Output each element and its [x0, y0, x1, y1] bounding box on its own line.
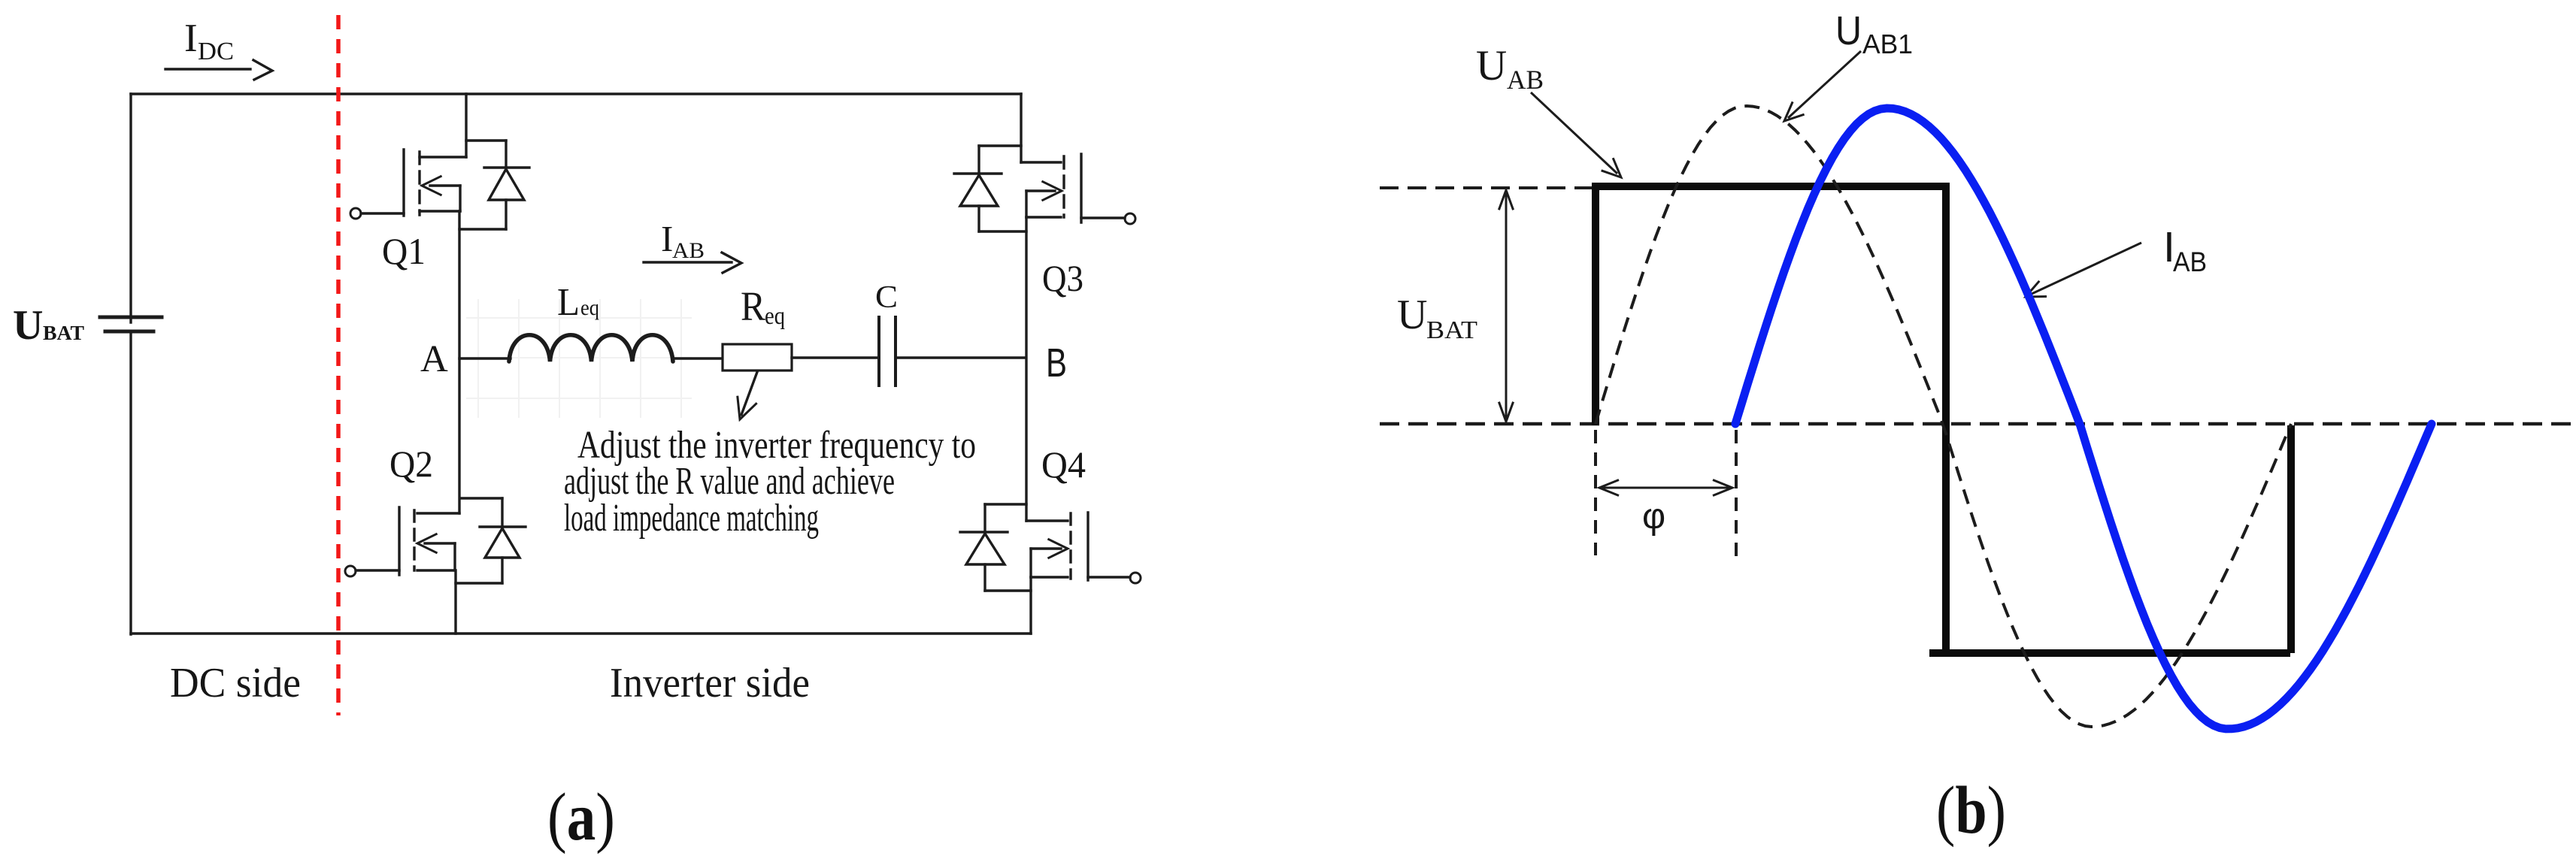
svg-text:Inverter side: Inverter side [610, 660, 810, 706]
capacitor C plates [877, 317, 880, 386]
arrow IAB current direction [644, 261, 732, 263]
svg-text:Q1: Q1 [382, 230, 426, 272]
transistor Q1 [350, 94, 466, 219]
wire Q4 source to bottom rail [1029, 577, 1032, 634]
wire top rail [131, 92, 1021, 95]
svg-text:U: U [13, 302, 43, 349]
svg-text:DC side: DC side [170, 660, 301, 706]
svg-text:Q2: Q2 [389, 443, 433, 485]
svg-text:BAT: BAT [1426, 316, 1477, 344]
wire Q2 source to bottom rail [454, 570, 456, 634]
transistor Q4 [1026, 513, 1141, 583]
diode D1 (body diode of Q1) [459, 141, 529, 229]
dashed phase marker right [1735, 430, 1738, 562]
svg-text:AB: AB [2173, 246, 2207, 277]
wire left rail lower [129, 333, 132, 634]
wire inductor to resistor [673, 357, 723, 359]
boundary red dashed line [336, 15, 341, 715]
wire left rail upper [129, 94, 132, 322]
resistor Req [723, 344, 792, 370]
wire resistor to capacitor [792, 356, 879, 358]
dashed phase marker left [1594, 430, 1597, 555]
curve UAB square wave [1596, 186, 2291, 653]
svg-text:eq: eq [580, 295, 599, 320]
arrow UAB1 pointer [1784, 51, 1861, 121]
arrow from Req to note text [741, 372, 757, 415]
svg-text:A: A [420, 338, 448, 380]
diode D2 (body diode of Q2) [456, 498, 526, 583]
svg-text:U: U [1476, 42, 1507, 89]
svg-text:U: U [1397, 292, 1427, 338]
inductor Leq [509, 335, 673, 361]
svg-text:I: I [661, 218, 673, 259]
svg-text:AB: AB [672, 238, 705, 263]
axis top dashed level line [1380, 186, 1594, 189]
diode D3 (body diode of Q3) [954, 146, 1026, 231]
axis zero dashed line [1380, 422, 2571, 425]
arrow IDC current direction [165, 68, 250, 70]
svg-text:DC: DC [198, 38, 234, 65]
svg-text:BAT: BAT [43, 322, 84, 344]
svg-text:C: C [875, 280, 898, 315]
svg-text:B: B [1046, 340, 1067, 386]
svg-text:(b): (b) [1936, 773, 2006, 848]
battery UBAT plates [100, 316, 162, 319]
svg-text:Q4: Q4 [1041, 443, 1086, 485]
transistor Q2 [345, 507, 459, 576]
wire bottom rail [131, 632, 1031, 634]
wire node A to inductor [459, 357, 511, 359]
diode D4 (body diode of Q4) [960, 504, 1031, 591]
curve UAB1 dashed sine [1596, 106, 2291, 727]
arrow UAB pointer [1531, 92, 1621, 177]
arrow IAB pointer [2026, 243, 2141, 297]
wire rail Q3 source to node B to Q4 drain [1025, 217, 1027, 521]
svg-text:AB1: AB1 [1862, 29, 1913, 59]
curve IAB blue sine [1735, 108, 2432, 729]
transistor Q3 [1021, 94, 1135, 224]
svg-text:L: L [557, 281, 580, 324]
arrow phi span [1599, 480, 1732, 496]
svg-text:eq: eq [765, 303, 785, 330]
svg-text:Q3: Q3 [1042, 257, 1083, 299]
faint grid artifact behind inductor [466, 299, 692, 418]
svg-text:R: R [741, 283, 765, 329]
svg-text:load impedance matching: load impedance matching [564, 497, 819, 540]
wire capacitor to node B [896, 356, 1026, 358]
arrow UBAT span [1499, 190, 1513, 422]
svg-text:I: I [184, 17, 198, 60]
svg-text:U: U [1835, 8, 1862, 53]
wire rail Q1 source to node A to Q2 drain [458, 211, 460, 513]
svg-text:φ: φ [1642, 497, 1665, 537]
svg-text:(a): (a) [547, 780, 615, 854]
svg-text:AB: AB [1507, 65, 1544, 95]
